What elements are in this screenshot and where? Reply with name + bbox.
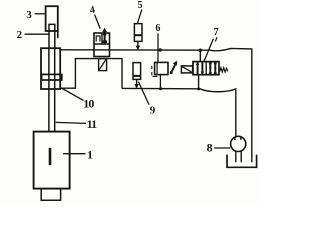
rod end mark inside cylinder 1 xyxy=(49,148,52,165)
valve U4: orifice symbol (left cell) xyxy=(96,36,100,42)
svg-text:2: 2 xyxy=(17,29,23,41)
svg-text:4: 4 xyxy=(89,5,96,17)
label 5 leader xyxy=(138,10,142,23)
svg-text:9: 9 xyxy=(150,105,156,117)
rod (through block down to cylinder 1) xyxy=(49,48,55,132)
guide block (body) xyxy=(41,48,60,89)
svg-text:5: 5 xyxy=(138,0,143,11)
valve U4: body xyxy=(94,33,110,57)
valve 7 bottom port xyxy=(198,75,200,89)
node (junction dot at valve 6 bottom) xyxy=(159,87,162,90)
wire: block lower port up-over to valve 4 right side, down to bottom manifold xyxy=(60,59,122,89)
filter 5 xyxy=(134,24,142,42)
svg-text:7: 7 xyxy=(214,27,219,38)
piston rod 2 (inner rod) xyxy=(49,24,55,48)
valve 7 right cell bars xyxy=(210,62,215,74)
filter 9 drop line + arrowhead xyxy=(136,79,138,85)
piston bar 10 xyxy=(42,74,62,80)
cylinder 1 foot xyxy=(41,189,60,201)
bottom manifold wire to pump xyxy=(122,88,236,136)
label 1 leader xyxy=(63,153,86,155)
svg-text:8: 8 xyxy=(207,141,213,155)
valve 6: leader/port line from label down through manifold xyxy=(157,33,159,62)
valve 6 bottom port xyxy=(159,75,161,89)
valve U4: drain hatched box xyxy=(99,59,107,71)
label 9 leader xyxy=(138,82,149,105)
valve 6 body xyxy=(155,62,168,74)
node (junction dot at valve 6 top) xyxy=(159,48,162,51)
node (junction dot at valve 7 bottom) xyxy=(197,87,200,90)
svg-text:6: 6 xyxy=(155,23,160,34)
node (junction at valve 7 top) xyxy=(199,49,202,52)
solenoid (valve 7 left) xyxy=(181,66,192,73)
pump suction lines xyxy=(236,151,241,162)
wire: block upper port to top manifold and to tank (right) xyxy=(60,48,252,162)
valve 6 arrow (right side) xyxy=(171,62,177,73)
valve 6 pilot dashes xyxy=(152,66,158,76)
svg-text:11: 11 xyxy=(87,117,98,131)
pump 8 xyxy=(231,136,246,151)
valve U4: dividers xyxy=(94,33,110,44)
label 2 leader xyxy=(25,33,49,35)
cylinder 1 (bottom box) xyxy=(34,132,70,189)
tank xyxy=(227,155,257,168)
label 11 leader xyxy=(56,122,86,123)
label 4 leader xyxy=(95,15,101,29)
filter 9 xyxy=(133,63,141,80)
cylinder tube 3 (outer sleeve top-left) xyxy=(46,6,58,31)
valve 7 body xyxy=(193,62,219,75)
svg-text:3: 3 xyxy=(26,9,32,21)
valve U4: bold up arrow xyxy=(104,31,106,44)
filter 5 drop line + arrowhead xyxy=(137,41,139,47)
valve 7 left cell flow arrows xyxy=(198,62,203,74)
label 7 leader xyxy=(204,39,213,62)
label 8 leader xyxy=(214,147,230,149)
label 10 leader xyxy=(61,88,83,101)
svg-text:10: 10 xyxy=(83,97,94,111)
svg-text:1: 1 xyxy=(87,148,93,162)
valve 7 top port xyxy=(199,50,201,61)
label 7 comma tail xyxy=(215,37,217,41)
valve 7 spring xyxy=(219,68,227,72)
label 3 leader xyxy=(35,13,46,15)
